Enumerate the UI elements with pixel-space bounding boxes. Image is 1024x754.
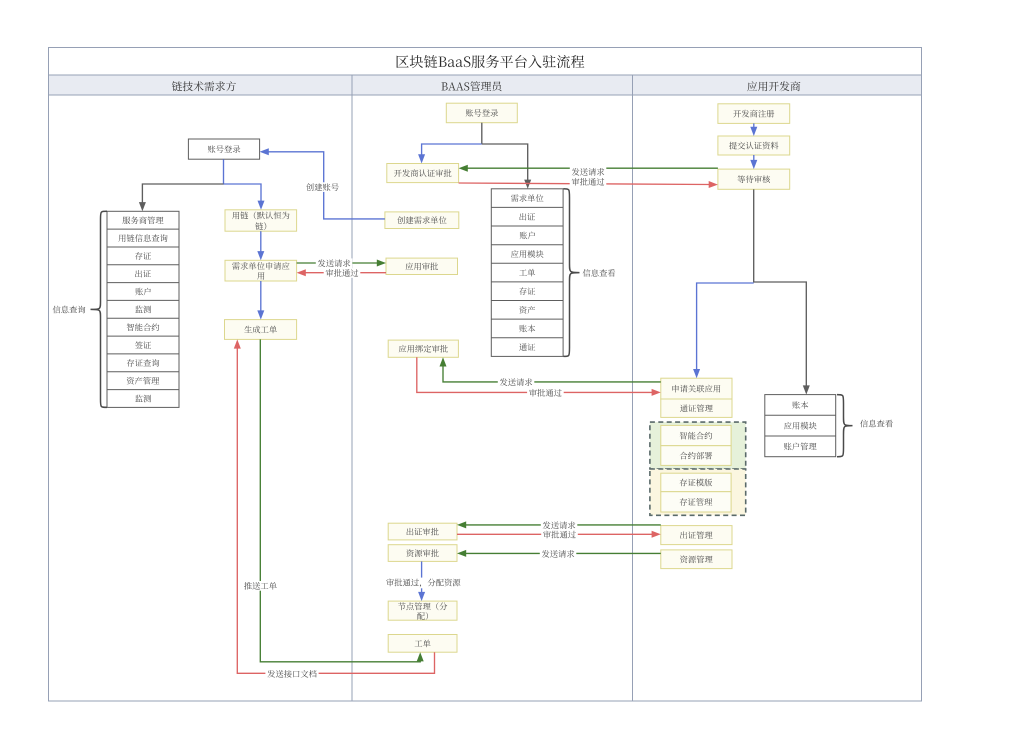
wire 资源审批 to 节点管理 (blue)	[421, 561, 423, 593]
wire 资源管理 to 资源审批 发送请求 (green)	[465, 552, 661, 554]
wire 需求单位申请应用 to 生成工单 (blue)	[260, 281, 262, 311]
wire 账号登录(lane1) to 用链 (blue)	[224, 159, 262, 201]
label 审批通过 (认证审批)	[570, 177, 607, 187]
list 信息查询功能 (lane1 stack)	[107, 211, 179, 407]
label 发送请求 (出证)	[541, 520, 578, 530]
wire to 账本列表 (black)	[754, 282, 807, 386]
dashed group 存证模版	[650, 469, 746, 515]
wire to 信息查看列表(lane2) (black)	[482, 144, 528, 181]
box 提交认证资料	[718, 136, 790, 155]
box 出证审批	[388, 523, 457, 540]
box 通证管理 (lane3)	[661, 399, 732, 417]
wire 应用审批 to 需求单位申请应用 审批通过 (red)	[305, 272, 386, 274]
list 信息查看 (lane3 stack)	[765, 395, 836, 457]
box 智能合约	[661, 425, 731, 445]
label 审批通过 (绑定审批)	[527, 388, 564, 398]
wire 开发商认证审批 to 等待审核 审批通过 (red)	[459, 183, 710, 185]
diagram title 区块链BaaS服务平台入驻流程	[396, 55, 584, 68]
wire 账号登录(lane1) to 信息查询列表 (black)	[142, 184, 223, 203]
box 生成工单	[225, 320, 297, 340]
box 创建需求单位	[385, 212, 459, 229]
brace 信息查看 (lane3)	[837, 395, 853, 457]
lane header band	[49, 75, 922, 95]
wire 开发商注册 to 提交认证资料 (blue)	[753, 123, 755, 127]
wire to 申请关联应用 (blue)	[697, 283, 754, 370]
box 申请关联应用	[661, 378, 732, 399]
box 开发商注册	[718, 104, 790, 124]
box 应用审批	[386, 258, 458, 274]
box 等待审核	[718, 169, 790, 189]
box 出证管理	[661, 526, 732, 545]
label 审批通过 (出证)	[541, 530, 578, 540]
box 节点管理（分配）	[388, 601, 457, 620]
label 发送请求 (绑定审批)	[498, 377, 535, 387]
label 信息查看 (lane2)	[583, 269, 616, 277]
wire 出证管理 to 出证审批 发送请求 (green)	[465, 524, 661, 526]
lane title 链技术需求方	[172, 81, 236, 91]
brace 信息查询	[91, 211, 108, 407]
label 信息查看 (lane3)	[860, 420, 893, 428]
box 存证管理	[661, 492, 731, 512]
wire 创建需求单位 to 账号登录 创建账号 (blue)	[268, 152, 385, 219]
lane divider 2	[632, 75, 634, 701]
lane title BAAS管理员	[442, 81, 502, 91]
wire 需求单位申请应用 to 应用审批 发送请求 (green)	[297, 262, 378, 264]
box 账号登录 (lane2)	[446, 103, 517, 123]
lane divider 1	[351, 75, 353, 701]
label 发送请求 (认证审批)	[570, 167, 607, 177]
pool frame	[49, 48, 922, 702]
label 审批通过 (应用审批)	[324, 268, 361, 278]
wire to 开发商认证审批 (blue)	[422, 144, 482, 155]
wire 等待审核 to 开发商认证审批 发送请求 (green)	[467, 167, 718, 169]
label 推送工单	[242, 581, 279, 591]
wire 提交认证资料 to 等待审核 (blue)	[753, 155, 755, 161]
box 需求单位申请应用	[225, 260, 297, 281]
wire 申请关联应用 to 应用绑定审批 发送请求 (green)	[443, 366, 661, 382]
box 存证模版	[661, 473, 731, 492]
label 发送请求 (资源)	[540, 549, 577, 559]
dashed group 智能合约	[650, 422, 746, 469]
label 信息查询	[53, 306, 86, 314]
box 开发商认证审批	[387, 164, 459, 183]
list 信息查看 (lane2 stack)	[491, 189, 563, 357]
brace 信息查看 (lane2)	[564, 189, 580, 357]
wire 账号登录(lane2) stem (black)	[481, 123, 483, 144]
lane title 应用开发商	[747, 81, 800, 91]
label 审批通过，分配资源	[384, 578, 462, 589]
wire 工单 to 生成工单 发送接口文档 (red)	[237, 348, 434, 674]
wire 出证审批 to 出证管理 审批通过 (red)	[457, 533, 653, 535]
label 创建账号	[304, 182, 341, 192]
box 资源审批	[388, 545, 457, 562]
label 发送接口文档	[265, 669, 318, 679]
wire 用链 to 需求单位申请应用 (blue)	[260, 231, 262, 252]
label 发送请求 (应用审批)	[316, 258, 353, 268]
box 合约部署	[661, 446, 731, 466]
box 用链（默认恒为链）	[225, 210, 297, 231]
wire 等待审核 stem down (black)	[753, 189, 755, 282]
box 应用绑定审批	[388, 340, 458, 357]
box 工单 (lane2)	[388, 635, 457, 653]
box 资源管理	[661, 550, 732, 569]
box 账号登录 (lane1)	[188, 139, 259, 159]
wire 应用绑定审批 to 申请关联应用 审批通过 (red)	[417, 357, 653, 392]
wire 生成工单 to 工单 推送工单 (green)	[260, 339, 420, 661]
